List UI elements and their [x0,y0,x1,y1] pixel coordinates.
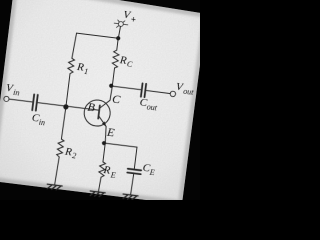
svg-text:out: out [183,86,195,96]
wire CE top lead [134,147,137,168]
label RC [118,54,134,69]
node collector [109,83,114,88]
paper [0,0,207,204]
ground under R2 [47,184,62,190]
resistor R2 [56,139,64,158]
transistor emitter lead [95,116,108,144]
label Cin [31,112,46,127]
wire R2 to ground [55,157,60,185]
wire R1 top lead [72,33,77,58]
transistor base bar [98,105,100,118]
svg-text:E: E [109,170,116,180]
capacitor CE [127,169,141,174]
wire collector to Cout [112,86,140,89]
wire Cout to Vout [147,91,171,94]
wire RE top lead [103,143,105,162]
terminal Vout [170,91,176,97]
paper edge shadow [0,0,207,204]
wire base junction to R2 [61,106,66,139]
wire top rail [77,33,119,38]
terminal Vin [4,96,10,102]
wire RE to ground [98,177,101,191]
transistor Q1 circle [83,99,112,128]
emitter arrow [102,121,107,127]
wire Cin to base [38,103,99,111]
resistor RE [98,161,105,177]
capacitor Cout [141,83,146,97]
resistor RC [112,50,120,68]
node top rail [116,36,121,41]
svg-text:in: in [13,88,20,98]
label CE [142,162,156,177]
wire RC bottom lead [112,68,114,86]
label R2 [63,145,77,160]
wire Vin to Cin [9,99,32,102]
ground under CE [123,194,138,200]
label V+ [122,9,137,25]
wire CE to ground [131,174,134,194]
svg-text:E: E [148,168,155,178]
wire emitter row [105,143,137,147]
V+ supply terminal [114,20,129,29]
capacitor Cin [32,94,38,110]
svg-text:in: in [38,117,45,127]
label R1 [75,61,89,76]
label Vin [5,82,21,98]
resistor R1 [67,58,75,76]
wire R1 to base junction [66,75,70,106]
label Cout [139,96,159,112]
ground under RE [90,191,105,197]
node emitter [102,141,107,146]
transistor collector lead [99,85,112,110]
node base junction [63,104,69,110]
label RE [101,164,116,180]
svg-text:out: out [146,102,158,112]
label Vout [175,81,195,97]
wire V+ stem [118,26,120,38]
wire RC top lead [117,38,118,50]
